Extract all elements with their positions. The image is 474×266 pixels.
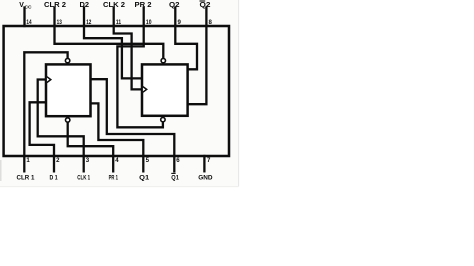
svg-text:CC: CC [25,5,33,11]
svg-text:CLR 1: CLR 1 [17,174,35,181]
svg-text:4: 4 [115,157,119,164]
svg-text:6: 6 [176,157,180,164]
svg-text:PR 2: PR 2 [135,2,152,9]
svg-text:V: V [19,2,24,9]
svg-text:3: 3 [86,157,90,164]
svg-text:13: 13 [57,19,63,26]
svg-text:Q2: Q2 [200,2,211,9]
svg-text:D 1: D 1 [50,174,58,181]
svg-text:PR 1: PR 1 [109,174,119,181]
svg-text:D2: D2 [80,2,90,9]
svg-text:Q2: Q2 [169,2,180,9]
svg-text:11: 11 [116,19,122,26]
svg-text:Q1: Q1 [139,174,149,181]
svg-text:10: 10 [146,19,152,26]
svg-text:14: 14 [26,19,32,26]
svg-text:CLK 1: CLK 1 [77,174,90,181]
svg-text:Q1: Q1 [171,174,179,181]
svg-text:CLR 2: CLR 2 [44,2,66,9]
svg-text:12: 12 [86,19,92,26]
svg-text:GND: GND [198,174,213,181]
svg-text:CLK 2: CLK 2 [103,2,125,9]
